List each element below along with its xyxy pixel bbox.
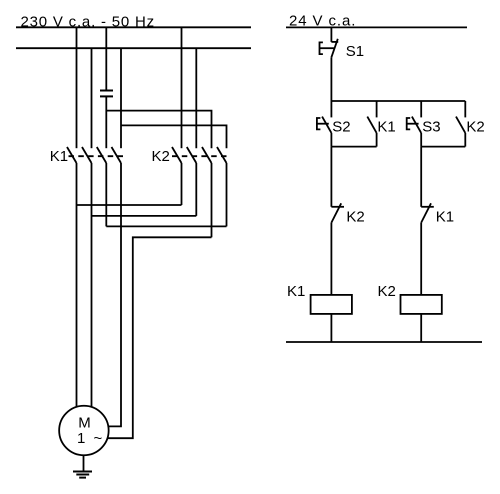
contact K2 NC moving contact — [331, 203, 341, 222]
contact K1 NC moving contact — [421, 203, 431, 222]
ground bar 3 — [79, 477, 86, 479]
pushbutton S2 actuator cap — [317, 118, 321, 129]
wire coil K1 to rail — [330, 314, 332, 342]
K2 pole1 contact — [172, 147, 182, 163]
wire capacitor node to K2 pole3 — [106, 111, 211, 149]
svg-text:S2: S2 — [332, 118, 350, 135]
wire N node to K2 pole4 — [121, 125, 227, 148]
svg-text:K1: K1 — [436, 208, 454, 225]
wire K2 aux down — [464, 133, 466, 147]
K1 pole4 contact — [112, 147, 122, 163]
K1 pole1 contact — [67, 147, 77, 163]
branch1 bottom wire — [331, 146, 376, 148]
svg-text:S1: S1 — [346, 43, 364, 60]
K2 pole2 contact — [187, 147, 197, 163]
wire L1 to K1 pole1 — [76, 27, 78, 148]
wire L1 to K2 pole1 — [181, 27, 183, 148]
wire N to K1 pole2 — [91, 48, 93, 148]
rail L1 (230V top rail) — [16, 26, 251, 28]
pushbutton S1 (NC) moving contact — [331, 39, 337, 58]
wire S1 to branch node — [330, 57, 332, 101]
pushbutton S3 (NO) contact — [412, 117, 421, 133]
wire S3 down — [420, 133, 422, 147]
coil K1 — [311, 295, 352, 314]
svg-text:K1: K1 — [377, 118, 395, 135]
wire K1 pole4 to motor right upper — [108, 163, 121, 426]
K2 pole4 contact — [217, 147, 227, 163]
tie wire K1p1-K2p1 — [77, 204, 182, 206]
svg-text:S3: S3 — [422, 118, 440, 135]
branch2 bottom wire — [421, 146, 465, 148]
coil K2 — [401, 295, 442, 314]
svg-text:K2: K2 — [346, 208, 364, 225]
contact K1 aux (NO) — [367, 117, 376, 133]
K1 pole2 contact — [82, 147, 92, 163]
rail N (230V second rail) — [16, 47, 251, 49]
wire capacitor to K1 pole3 — [105, 96, 107, 148]
K2 pole3 contact — [202, 147, 212, 163]
motor M1 circle — [59, 406, 109, 456]
svg-text:1 ~: 1 ~ — [77, 430, 104, 447]
pushbutton S1 plunger — [320, 47, 335, 49]
pushbutton S2 plunger — [317, 123, 329, 125]
svg-text:K1: K1 — [287, 283, 305, 300]
wire K1 pole3 down — [105, 163, 107, 226]
wire N to K2 pole2 — [195, 48, 197, 148]
K1 pole3 contact — [97, 147, 107, 163]
wire branch to K1 aux — [376, 101, 378, 117]
wire K2 pole3 down — [211, 163, 213, 237]
wire K2 pole2 down — [195, 163, 197, 216]
tie wire K1p3-K2p4 — [106, 225, 226, 227]
svg-text:K1: K1 — [50, 148, 68, 165]
wire branch2 to K1 NC — [420, 147, 422, 207]
tie wire K1p2-K2p2 — [92, 215, 197, 217]
contact K1 NC seat bar — [421, 206, 434, 208]
ground bar 1 — [73, 471, 92, 473]
pushbutton S1 (NC) seat bar — [331, 41, 338, 43]
tie wire K2p3 to motor right lower — [107, 237, 211, 438]
contact K2 aux (NO) — [456, 117, 465, 133]
K1 mechanical link (dashed) — [69, 155, 125, 157]
wire rail to S1 — [330, 27, 332, 42]
wire branch to S3 — [420, 101, 422, 117]
wire coil K2 to rail — [420, 314, 422, 342]
wire L1 to capacitor — [105, 27, 107, 90]
pushbutton S2 (NO) contact — [322, 117, 331, 133]
pushbutton S3 plunger — [407, 123, 419, 125]
svg-text:K2: K2 — [378, 283, 396, 300]
svg-text:K2: K2 — [152, 148, 170, 165]
pushbutton S1 actuator cap — [320, 42, 323, 54]
wire branch1 to K2 NC — [330, 147, 332, 207]
wire branch to K2 aux — [464, 101, 466, 117]
wire N to K1 pole4 — [120, 48, 122, 148]
pushbutton S3 actuator cap — [407, 118, 411, 129]
capacitor C1 plate bottom — [100, 95, 113, 97]
wire S2 down — [330, 133, 332, 147]
branch top wire — [331, 100, 465, 102]
wire K2 pole1 down — [181, 163, 183, 205]
capacitor C1 plate top — [100, 90, 113, 92]
wire motor to ground — [83, 455, 85, 471]
ground bar 2 — [76, 474, 89, 476]
K2 mechanical link (dashed) — [172, 155, 230, 157]
svg-text:K2: K2 — [466, 118, 484, 135]
rail 24V bottom — [286, 341, 482, 343]
rail 24V top — [286, 26, 467, 28]
wire K1 aux down — [376, 133, 378, 147]
svg-text:M: M — [78, 414, 91, 431]
wire K1 pole2 to motor — [91, 163, 93, 407]
contact K2 NC seat bar — [331, 206, 344, 208]
wire K1 NC to coil K2 — [420, 223, 422, 295]
wire K1 pole1 to motor — [76, 163, 78, 407]
wire K2 pole4 down — [226, 163, 228, 226]
wire branch to S2 — [330, 101, 332, 117]
wire K2 NC to coil K1 — [330, 223, 332, 295]
